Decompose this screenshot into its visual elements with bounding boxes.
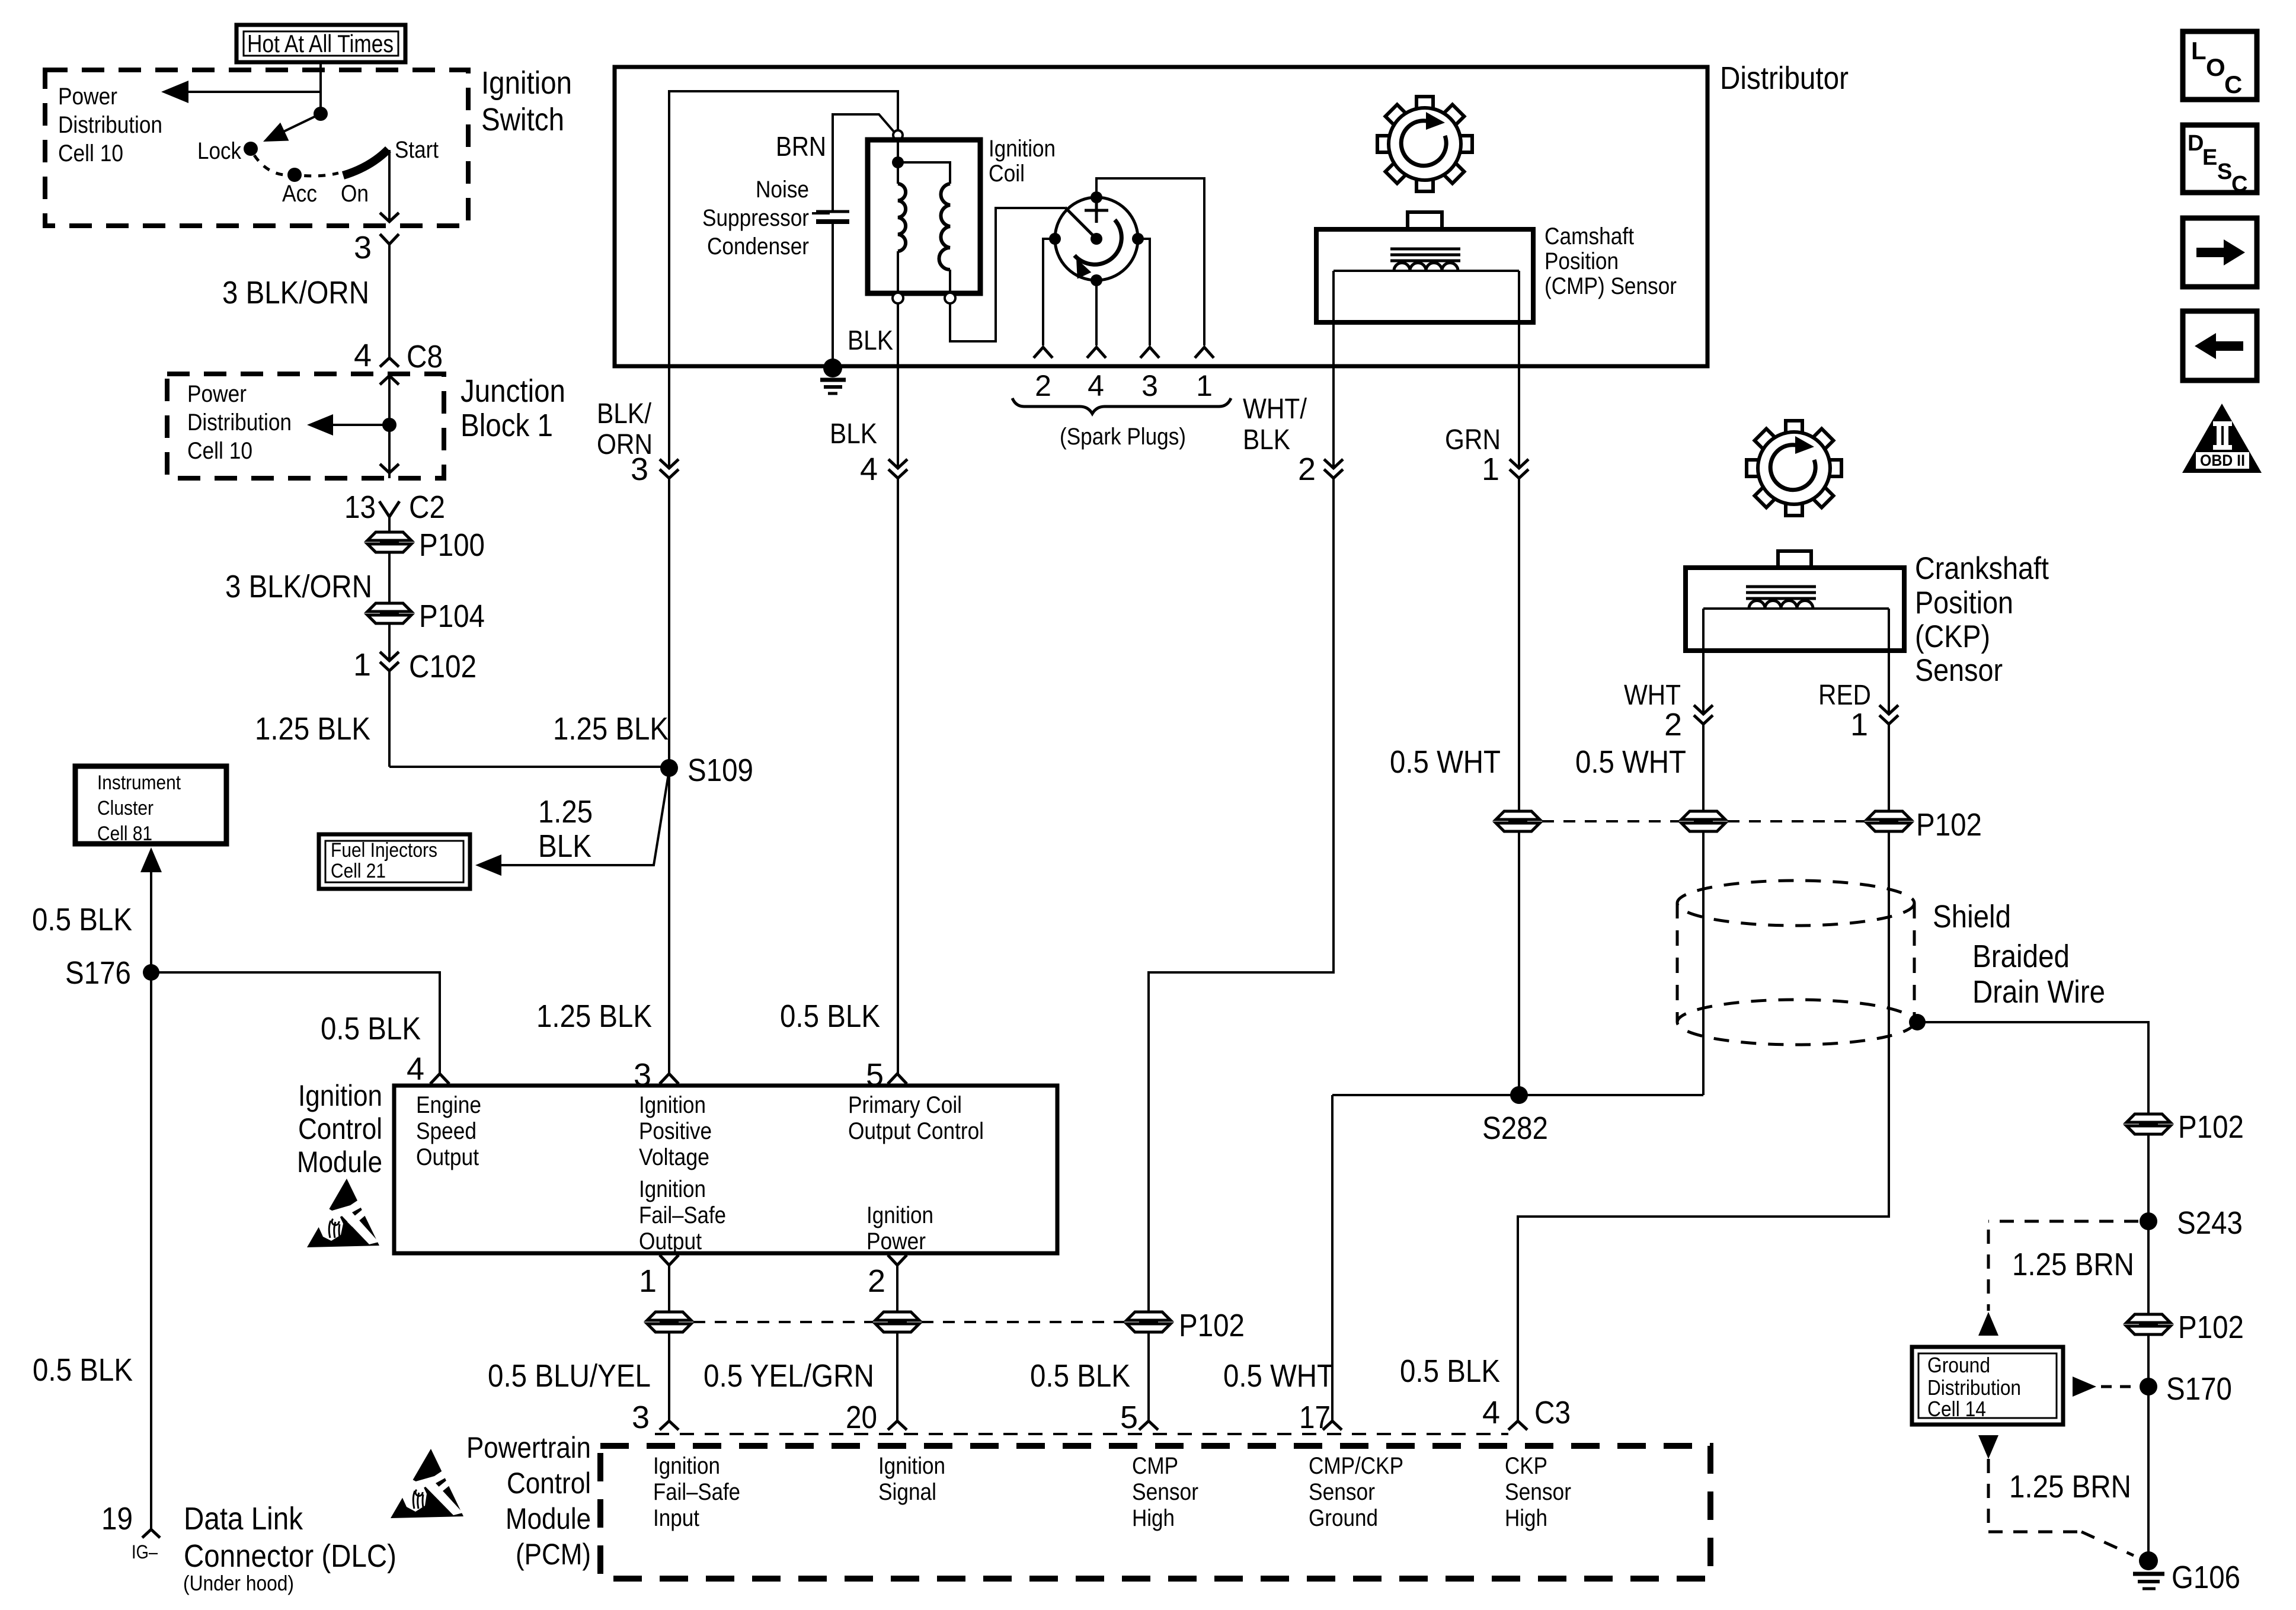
- CMP sensor winding bar: [1334, 270, 1519, 272]
- svg-text:Sensor: Sensor: [1309, 1479, 1375, 1505]
- svg-text:Coil: Coil: [989, 161, 1025, 187]
- svg-text:1.25 BRN: 1.25 BRN: [2009, 1469, 2131, 1505]
- wire P102 to PCM pin 3: [668, 1332, 670, 1421]
- svg-text:0.5 BLK: 0.5 BLK: [32, 902, 132, 937]
- svg-text:Fail–Safe: Fail–Safe: [639, 1202, 726, 1228]
- svg-text:C3: C3: [1534, 1395, 1571, 1430]
- svg-text:C8: C8: [407, 339, 443, 375]
- CKP sensor tab: [1778, 551, 1811, 568]
- label RED: [1818, 680, 1871, 711]
- wire S282 horizontal: [1332, 1094, 1703, 1096]
- svg-text:Suppressor: Suppressor: [702, 205, 809, 231]
- label 1.25 BLK (left): [255, 711, 370, 747]
- powertrain control module box (dashed): [600, 1446, 1710, 1579]
- svg-text:(PCM): (PCM): [516, 1538, 591, 1571]
- svg-text:Condenser: Condenser: [707, 233, 809, 260]
- svg-text:Ignition: Ignition: [639, 1092, 706, 1118]
- svg-text:BLK: BLK: [830, 418, 877, 450]
- svg-text:Fail–Safe: Fail–Safe: [653, 1479, 740, 1505]
- svg-text:S176: S176: [65, 955, 131, 991]
- connector P102 (ICM pin1): [647, 1312, 691, 1332]
- label Camshaft Position (CMP) Sensor: [1544, 223, 1677, 299]
- label CMP/CKP Sensor Ground: [1309, 1453, 1403, 1531]
- svg-text:Voltage: Voltage: [639, 1144, 709, 1170]
- label Braided Drain Wire: [1972, 939, 2105, 1010]
- wire S176 to ICM pin 4: [151, 972, 440, 1074]
- ICM pin 1: [639, 1255, 679, 1299]
- svg-text:IG–: IG–: [132, 1541, 158, 1563]
- svg-text:Position: Position: [1915, 585, 2013, 620]
- wire P100 to P104: [388, 552, 391, 603]
- PCM connector face line (dashed): [655, 1433, 1508, 1435]
- CKP pin 2: [1664, 705, 1713, 742]
- svg-text:Crankshaft: Crankshaft: [1915, 551, 2049, 586]
- svg-text:High: High: [1505, 1505, 1547, 1531]
- connector P102 (WHT wire): [1681, 811, 1725, 831]
- svg-text:0.5 YEL/GRN: 0.5 YEL/GRN: [703, 1358, 874, 1394]
- CMP sensor tab: [1408, 212, 1442, 229]
- noise suppressor condenser capacitor: [812, 212, 849, 222]
- ICM pin 5: [866, 1057, 907, 1093]
- terminal circle ignition coil top: [893, 130, 903, 140]
- connector P102 (ICM pin2): [875, 1312, 919, 1332]
- svg-text:4: 4: [407, 1051, 424, 1087]
- svg-text:1: 1: [1482, 452, 1499, 487]
- label 0.5 BLK (CMP high): [1030, 1358, 1130, 1394]
- svg-text:ORN: ORN: [597, 429, 653, 460]
- wire right rail lower: [2147, 1334, 2150, 1561]
- svg-text:Power: Power: [58, 84, 117, 110]
- svg-text:(Under hood): (Under hood): [183, 1571, 294, 1595]
- svg-text:Hot At All Times: Hot At All Times: [247, 30, 394, 57]
- svg-text:Instrument: Instrument: [97, 772, 181, 794]
- power feed box Hot At All Times: [236, 25, 405, 62]
- svg-text:5: 5: [866, 1057, 884, 1093]
- wire distributor pin2 to PCM pin5: [1149, 478, 1334, 1312]
- connector DLC pin 19: [101, 1501, 160, 1538]
- switch wiper arrow toward Lock: [259, 114, 321, 151]
- svg-text:Control: Control: [507, 1467, 591, 1500]
- CMP sensor core lines: [1390, 249, 1460, 261]
- wire distributor pin3 to S109: [668, 478, 670, 767]
- icon LOC box: [2183, 31, 2257, 100]
- svg-text:Cell 14: Cell 14: [1927, 1397, 1986, 1421]
- rotor right contact: [1132, 233, 1144, 245]
- svg-text:3: 3: [1141, 369, 1158, 402]
- node S282: [1482, 1086, 1548, 1146]
- ignition coil box: [868, 140, 980, 293]
- label Ignition Fail-Safe Output: [639, 1176, 726, 1254]
- svg-text:S243: S243: [2177, 1205, 2243, 1241]
- svg-text:High: High: [1132, 1505, 1175, 1531]
- svg-text:O: O: [2206, 53, 2225, 81]
- svg-text:5: 5: [1120, 1400, 1138, 1435]
- connector P102 (right rail lower): [2126, 1310, 2244, 1345]
- wire P102 to PCM pin 5: [1147, 1332, 1150, 1421]
- wire S176 to instrument cluster: [140, 847, 162, 972]
- label plug numbers: [1035, 369, 1213, 402]
- label 1.25 BRN (lower): [2009, 1469, 2131, 1505]
- label GRN: [1445, 424, 1501, 456]
- svg-text:Engine: Engine: [416, 1092, 481, 1118]
- svg-text:Power: Power: [187, 381, 247, 407]
- svg-text:S170: S170: [2166, 1371, 2232, 1407]
- shield (dashed cylinder): [1677, 881, 1914, 1045]
- label BLK/ORN (distributor): [597, 398, 653, 460]
- svg-text:P102: P102: [1916, 807, 1982, 843]
- svg-text:Ground: Ground: [1927, 1353, 1990, 1377]
- spark plug wire 1: [1096, 178, 1204, 345]
- arrow to power distribution (junction block): [307, 414, 389, 436]
- svg-text:1: 1: [1196, 369, 1213, 402]
- dashed link P102 row (sensors): [1542, 820, 1865, 822]
- spark plug wire 2: [1043, 239, 1055, 345]
- svg-text:On: On: [341, 181, 369, 207]
- label WHT: [1624, 680, 1681, 711]
- spark plug terminal 1: [1195, 347, 1214, 358]
- svg-text:3: 3: [354, 230, 372, 265]
- svg-text:Data Link: Data Link: [184, 1501, 303, 1537]
- svg-text:0.5 BLU/YEL: 0.5 BLU/YEL: [488, 1358, 651, 1394]
- dashed link P102 row (ICM): [693, 1321, 1124, 1323]
- svg-text:BLK/: BLK/: [597, 398, 652, 430]
- connector C2 pin 13: [344, 489, 445, 525]
- wire C2 to P100: [388, 517, 391, 532]
- connector P102 (right rail upper): [2126, 1109, 2244, 1145]
- node S109: [660, 753, 753, 788]
- wire distributor pin1 to S282: [1518, 478, 1520, 1095]
- svg-text:(Spark Plugs): (Spark Plugs): [1060, 424, 1186, 450]
- svg-text:Noise: Noise: [756, 177, 809, 203]
- svg-text:(CKP): (CKP): [1915, 619, 1990, 654]
- svg-text:3: 3: [632, 1400, 650, 1435]
- svg-text:Speed: Speed: [416, 1118, 477, 1144]
- arrow from ground distribution to S170: [2073, 1377, 2134, 1397]
- label 1.25 BLK (ICM pin 3): [536, 998, 652, 1034]
- svg-text:BLK: BLK: [538, 828, 591, 864]
- label Power Distribution Cell 10 (junction block): [187, 381, 292, 464]
- connector P102 (CMP high): [1127, 1308, 1245, 1343]
- label 1.25 BLK (fuel injectors): [538, 794, 593, 864]
- svg-text:Control: Control: [298, 1112, 382, 1145]
- svg-text:P104: P104: [419, 598, 485, 634]
- svg-text:Shield: Shield: [1933, 899, 2011, 934]
- svg-text:2: 2: [868, 1263, 885, 1299]
- wire S282 to PCM pin17: [1331, 1095, 1334, 1421]
- wire ignition switch pin3 to C8: [388, 244, 391, 358]
- svg-text:C2: C2: [409, 489, 445, 525]
- svg-text:Cell 81: Cell 81: [97, 822, 152, 845]
- label Engine Speed Output: [416, 1092, 481, 1170]
- svg-text:1.25: 1.25: [538, 794, 593, 830]
- svg-text:P102: P102: [1179, 1308, 1245, 1343]
- svg-text:Camshaft: Camshaft: [1544, 223, 1634, 249]
- junction block 1 box (dashed): [167, 374, 444, 478]
- svg-text:Start: Start: [395, 137, 439, 163]
- spark plugs brace: [1012, 398, 1231, 414]
- spark plug wire 4: [1095, 280, 1098, 345]
- ground symbol (distributor): [820, 359, 846, 393]
- spark plug terminal 4: [1087, 347, 1106, 358]
- wire RED to PCM pin4: [1518, 831, 1889, 1421]
- label 0.5 BLK (ICM pin 4): [321, 1011, 421, 1046]
- rotor left contact: [1049, 233, 1061, 245]
- spark plug terminal 2: [1034, 347, 1053, 358]
- svg-text:3 BLK/ORN: 3 BLK/ORN: [222, 275, 369, 311]
- CMP sensor coil: [1394, 263, 1458, 271]
- svg-text:1.25 BLK: 1.25 BLK: [536, 998, 652, 1034]
- svg-text:Sensor: Sensor: [1915, 653, 2003, 688]
- svg-text:Distribution: Distribution: [1927, 1375, 2021, 1400]
- svg-text:13: 13: [344, 489, 376, 525]
- label Ignition Power: [866, 1202, 933, 1254]
- label 0.5 BLK (DLC): [33, 1352, 133, 1388]
- rotor cross mark: [1085, 201, 1108, 223]
- wire condenser to ground: [832, 222, 834, 366]
- svg-text:3: 3: [634, 1057, 651, 1093]
- svg-text:Cluster: Cluster: [97, 797, 154, 820]
- label Powertrain Control Module (PCM): [466, 1431, 591, 1571]
- label WHT/BLK: [1243, 393, 1307, 456]
- svg-text:Braided: Braided: [1972, 939, 2070, 974]
- wire ICM pin2 to P102: [896, 1265, 898, 1312]
- label 1.25 BLK (near S109 wire): [553, 711, 669, 747]
- label Ignition Signal: [878, 1453, 945, 1505]
- arrow up to ground distribution: [1978, 1312, 1998, 1336]
- wire BLK/ORN loop inside distributor: [669, 91, 898, 468]
- label Junction Block 1: [461, 373, 565, 443]
- svg-text:Cell 10: Cell 10: [58, 140, 123, 167]
- svg-text:E: E: [2202, 145, 2217, 170]
- svg-text:19: 19: [101, 1501, 133, 1537]
- dashed branch S243 to ground distribution: [1988, 1221, 2138, 1311]
- svg-text:L: L: [2191, 37, 2207, 65]
- svg-text:Ignition: Ignition: [878, 1453, 945, 1479]
- label 0.5 BLK (ICM pin 5): [780, 998, 880, 1034]
- ESD symbol (ICM): [307, 1179, 379, 1247]
- svg-text:Junction: Junction: [461, 373, 565, 409]
- svg-text:0.5 BLK: 0.5 BLK: [780, 998, 880, 1034]
- svg-text:0.5 WHT: 0.5 WHT: [1575, 744, 1686, 780]
- svg-text:Ignition: Ignition: [653, 1453, 720, 1479]
- ignition switch box (dashed): [45, 70, 468, 226]
- svg-text:2: 2: [1664, 707, 1682, 742]
- wire S109 to fuel injectors tap: [475, 770, 669, 876]
- node S170: [2140, 1371, 2232, 1407]
- wire CKP pin1 to P102: [1888, 724, 1890, 811]
- label Noise Suppressor Condenser: [702, 177, 809, 260]
- wire CMP pin2 inside: [1332, 271, 1335, 468]
- ICM pin 4: [407, 1051, 449, 1087]
- svg-text:Position: Position: [1544, 248, 1619, 274]
- wire P104 to C102: [388, 623, 391, 661]
- wire arrow to Power Distribution Cell 10: [161, 81, 321, 103]
- connector P102 (GRN wire): [1496, 811, 1540, 831]
- ground G106: [2133, 1551, 2240, 1595]
- svg-text:Powertrain: Powertrain: [466, 1431, 591, 1464]
- svg-text:P100: P100: [419, 527, 485, 563]
- svg-text:C: C: [2224, 71, 2242, 98]
- rotor bottom contact: [1091, 274, 1102, 286]
- distributor box: [615, 67, 1707, 366]
- svg-text:1.25 BLK: 1.25 BLK: [255, 711, 370, 747]
- terminal circle coil bottom left: [893, 293, 903, 303]
- svg-text:0.5 BLK: 0.5 BLK: [33, 1352, 133, 1388]
- label Start: [395, 137, 439, 163]
- connector P104: [367, 598, 485, 634]
- svg-text:WHT/: WHT/: [1243, 393, 1307, 425]
- svg-text:Power: Power: [866, 1228, 926, 1254]
- svg-text:G106: G106: [2172, 1560, 2240, 1595]
- distributor rotor circle: [1055, 197, 1138, 280]
- svg-text:C: C: [2231, 172, 2247, 197]
- label 0.5 YEL/GRN: [703, 1358, 874, 1394]
- label 0.5 BLK (CKP high): [1400, 1353, 1500, 1389]
- wire CKP pin1 inside: [1888, 609, 1890, 714]
- connector C8 pin 4: [354, 338, 443, 375]
- label 1.25 BRN (upper): [2012, 1247, 2134, 1282]
- label IG-: [132, 1541, 158, 1563]
- wire S109 to ICM pin 3: [668, 769, 670, 1074]
- label On: [341, 181, 369, 207]
- wire coil to distributor rotor: [950, 208, 1065, 341]
- wire C102 down: [388, 671, 391, 767]
- svg-text:Module: Module: [297, 1145, 382, 1179]
- label BRN: [776, 131, 826, 162]
- svg-text:1: 1: [1850, 707, 1868, 742]
- svg-text:Ignition: Ignition: [298, 1079, 382, 1112]
- label Distributor: [1720, 60, 1849, 96]
- pin 3 of ignition switch: [354, 230, 399, 265]
- rotor rotation arc: [1069, 220, 1121, 279]
- distributor pin 3 (BLK/ORN): [631, 452, 679, 487]
- wire WHT to S282: [1702, 831, 1705, 1095]
- svg-text:Distribution: Distribution: [187, 409, 292, 436]
- switch travel arc (dashed): [254, 155, 338, 176]
- svg-text:S: S: [2217, 159, 2232, 184]
- label 0.5 WHT (GRN wire): [1390, 744, 1501, 780]
- ignition coil primary winding: [898, 184, 906, 251]
- svg-text:CMP: CMP: [1132, 1453, 1178, 1479]
- svg-text:D: D: [2188, 131, 2204, 156]
- svg-text:BLK: BLK: [848, 325, 893, 356]
- svg-text:S109: S109: [687, 753, 753, 788]
- svg-text:Ignition: Ignition: [639, 1176, 706, 1202]
- ignition coil internal node: [892, 156, 904, 168]
- label (Spark Plugs): [1060, 424, 1186, 450]
- svg-text:Output: Output: [639, 1228, 702, 1254]
- wire from Hot At All Times to ignition switch: [319, 62, 322, 114]
- svg-text:0.5 WHT: 0.5 WHT: [1223, 1358, 1334, 1394]
- CKP pin 1: [1850, 705, 1898, 742]
- ignition control module box: [394, 1086, 1057, 1253]
- svg-text:Ignition: Ignition: [481, 65, 572, 101]
- spark plug terminal 3: [1140, 347, 1159, 358]
- CMP sensor gear: [1377, 97, 1472, 191]
- label BLK (ground wire): [848, 325, 893, 356]
- svg-text:Ignition: Ignition: [989, 136, 1056, 162]
- svg-text:Switch: Switch: [481, 102, 564, 137]
- svg-text:Sensor: Sensor: [1505, 1479, 1571, 1505]
- icon OBD II triangle: [2182, 404, 2262, 473]
- braided drain wire node: [1909, 1014, 1926, 1030]
- label 3 BLK/ORN (upper): [222, 275, 369, 311]
- svg-text:4: 4: [860, 452, 878, 487]
- label 0.5 WHT (sensor ground): [1223, 1358, 1334, 1394]
- connector P102 (RED wire): [1867, 807, 1982, 843]
- svg-text:Cell 21: Cell 21: [331, 860, 386, 882]
- svg-text:Ignition: Ignition: [866, 1202, 933, 1228]
- rotor top contact: [1091, 191, 1102, 203]
- svg-text:CMP/CKP: CMP/CKP: [1309, 1453, 1403, 1479]
- CKP sensor core lines: [1746, 587, 1816, 598]
- label Ignition Coil: [989, 136, 1056, 187]
- svg-text:P102: P102: [2178, 1310, 2244, 1345]
- rotor center dot: [1091, 233, 1102, 245]
- distributor pin 1 (GRN): [1482, 452, 1528, 487]
- label CMP Sensor High: [1132, 1453, 1198, 1531]
- ignition coil winding tails: [898, 251, 950, 293]
- svg-text:BRN: BRN: [776, 131, 826, 162]
- wire Start to pin 3 with arrow: [380, 150, 399, 222]
- svg-text:1: 1: [353, 647, 371, 683]
- label Ignition Fail-Safe Input: [653, 1453, 740, 1531]
- ICM pin 3: [634, 1057, 679, 1093]
- wire coil BLK output: [897, 303, 899, 468]
- PCM pin 5: [1120, 1400, 1158, 1435]
- wire P102 to PCM pin 20: [896, 1332, 898, 1421]
- icon arrow left box: [2183, 311, 2257, 380]
- svg-text:20: 20: [846, 1400, 877, 1435]
- svg-text:CKP: CKP: [1505, 1453, 1547, 1479]
- svg-text:Acc: Acc: [282, 181, 317, 207]
- PCM pin 17: [1299, 1400, 1342, 1435]
- contact Lock: [197, 138, 258, 164]
- wire BRN to coil terminal: [833, 114, 894, 212]
- CKP sensor box: [1686, 568, 1904, 651]
- node junction block tap: [382, 418, 396, 432]
- svg-text:Block 1: Block 1: [461, 408, 553, 443]
- label Shield: [1933, 899, 2011, 934]
- ignition coil internal wires: [898, 140, 950, 184]
- terminal circle coil bottom right: [945, 293, 955, 303]
- PCM pin 4 connector C3: [1482, 1395, 1571, 1430]
- spark plug wire 3: [1138, 239, 1150, 345]
- PCM pin 3: [632, 1400, 679, 1435]
- svg-text:Input: Input: [653, 1505, 699, 1531]
- svg-text:Sensor: Sensor: [1132, 1479, 1198, 1505]
- wire CKP pin2 inside: [1702, 609, 1705, 714]
- dashed branch ground distribution to G106: [1988, 1459, 2134, 1555]
- svg-text:Output: Output: [416, 1144, 479, 1170]
- PCM pin 20: [846, 1400, 907, 1435]
- svg-text:Cell 10: Cell 10: [187, 438, 252, 464]
- label CKP Sensor High: [1505, 1453, 1571, 1531]
- svg-text:0.5 BLK: 0.5 BLK: [321, 1011, 421, 1046]
- CKP sensor gear: [1747, 421, 1841, 516]
- svg-text:0.5 BLK: 0.5 BLK: [1400, 1353, 1500, 1389]
- label 3 BLK/ORN (lower): [225, 569, 372, 604]
- svg-text:(CMP) Sensor: (CMP) Sensor: [1544, 273, 1677, 299]
- svg-text:OBD II: OBD II: [2200, 452, 2245, 469]
- node S176: [65, 955, 159, 991]
- svg-text:GRN: GRN: [1445, 424, 1501, 456]
- label Data Link Connector (DLC): [183, 1501, 396, 1595]
- label Primary Coil Output Control: [848, 1092, 984, 1144]
- label BLK (coil output): [830, 418, 877, 450]
- wire C102 to S109: [389, 766, 669, 768]
- svg-text:C102: C102: [409, 649, 477, 684]
